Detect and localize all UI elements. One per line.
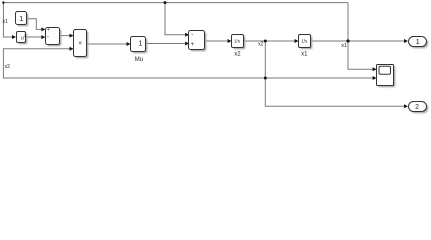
- svg-text:1: 1: [416, 39, 420, 46]
- svg-text:2: 2: [415, 104, 419, 111]
- svg-text:-: -: [47, 35, 49, 41]
- svg-text:1/s: 1/s: [301, 39, 308, 44]
- svg-text:Mu: Mu: [135, 57, 143, 63]
- svg-text:x1: x1: [341, 43, 347, 49]
- svg-text:1: 1: [19, 14, 23, 23]
- svg-text:-: -: [191, 32, 193, 38]
- svg-text:1: 1: [138, 39, 142, 48]
- svg-text:x1: x1: [301, 52, 308, 58]
- svg-text:x2: x2: [234, 52, 241, 58]
- svg-text:x2: x2: [258, 41, 264, 47]
- svg-text:x1: x1: [3, 19, 9, 25]
- svg-text:×: ×: [78, 40, 82, 47]
- svg-text:x2: x2: [5, 64, 11, 70]
- svg-text:1/s: 1/s: [234, 39, 241, 44]
- svg-text:+: +: [191, 42, 195, 48]
- svg-text:+: +: [47, 27, 50, 33]
